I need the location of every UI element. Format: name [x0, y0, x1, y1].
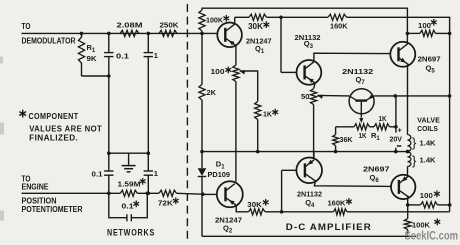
svg-text:FINALIZED.: FINALIZED. — [29, 134, 78, 143]
svg-text:0.1: 0.1 — [122, 201, 134, 210]
svg-text:30K: 30K — [248, 22, 263, 31]
svg-text:1.59M: 1.59M — [118, 179, 141, 188]
svg-text:}: } — [412, 135, 417, 150]
svg-text:ENGINE: ENGINE — [22, 182, 50, 191]
svg-text:1: 1 — [154, 169, 158, 178]
svg-text:1K: 1K — [359, 131, 367, 140]
svg-text:100: 100 — [418, 21, 431, 30]
svg-text:72K: 72K — [158, 199, 174, 208]
svg-text:2K: 2K — [207, 88, 217, 97]
svg-text:36K: 36K — [340, 135, 354, 144]
svg-text:}: } — [412, 153, 417, 168]
svg-text:1.4K: 1.4K — [420, 156, 437, 165]
svg-text:100: 100 — [420, 191, 433, 200]
svg-text:160K: 160K — [328, 198, 347, 207]
svg-text:POSITION: POSITION — [22, 196, 57, 205]
svg-text:POTENTIOMETER: POTENTIOMETER — [22, 205, 83, 214]
svg-text:+: + — [398, 126, 403, 135]
svg-text:DEMODULATOR: DEMODULATOR — [22, 37, 76, 46]
svg-text:2N697: 2N697 — [418, 55, 441, 64]
svg-text:2N697: 2N697 — [363, 164, 390, 173]
svg-text:100K: 100K — [206, 16, 224, 25]
svg-text:VALUES ARE NOT: VALUES ARE NOT — [29, 124, 102, 133]
svg-text:250K: 250K — [160, 21, 180, 30]
svg-text:1K: 1K — [263, 110, 273, 119]
svg-text:NETWORKS: NETWORKS — [107, 228, 155, 238]
svg-text:20V: 20V — [390, 134, 403, 143]
svg-text:0.1: 0.1 — [92, 169, 103, 178]
svg-text:COMPONENT: COMPONENT — [29, 112, 79, 121]
svg-text:SeekIC.com: SeekIC.com — [405, 231, 459, 243]
svg-text:TO: TO — [22, 22, 31, 31]
svg-text:30K: 30K — [247, 200, 262, 209]
svg-text:0.1: 0.1 — [116, 51, 129, 60]
svg-text:2N1132: 2N1132 — [297, 189, 322, 198]
svg-text:2.08M: 2.08M — [117, 21, 143, 30]
svg-text:D-C AMPLIFIER: D-C AMPLIFIER — [286, 222, 372, 232]
svg-text:50: 50 — [301, 92, 310, 101]
svg-text:1.4K: 1.4K — [420, 138, 437, 147]
svg-text:100: 100 — [211, 67, 225, 76]
svg-text:COILS: COILS — [417, 124, 438, 133]
svg-text:1: 1 — [154, 51, 158, 60]
svg-text:1K: 1K — [379, 114, 387, 123]
svg-text:PD109: PD109 — [208, 170, 231, 179]
svg-text:160K: 160K — [330, 21, 348, 30]
svg-text:9K: 9K — [87, 54, 98, 63]
svg-text:100K: 100K — [412, 221, 431, 230]
